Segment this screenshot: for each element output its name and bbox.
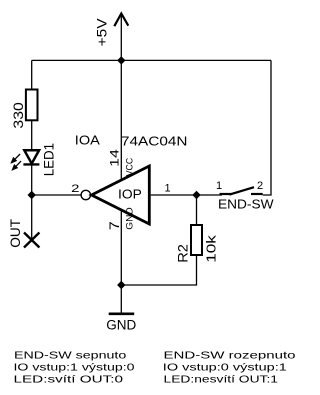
svg-text:IOP: IOP <box>118 186 142 201</box>
svg-text:GND: GND <box>124 207 134 230</box>
svg-text:R2: R2 <box>174 244 190 263</box>
svg-text:IO vstup:1 výstup:0: IO vstup:1 výstup:0 <box>14 362 135 374</box>
svg-text:LED:nesvítí OUT:1: LED:nesvítí OUT:1 <box>164 373 279 385</box>
svg-text:END-SW sepnuto: END-SW sepnuto <box>14 350 126 362</box>
svg-text:1: 1 <box>165 183 171 195</box>
svg-text:+5V: +5V <box>93 18 109 47</box>
svg-text:IO vstup:0 výstup:1: IO vstup:0 výstup:1 <box>163 362 287 374</box>
svg-text:330: 330 <box>10 102 26 129</box>
svg-text:1: 1 <box>216 180 222 192</box>
svg-text:74AC04N: 74AC04N <box>121 133 188 148</box>
svg-text:OUT: OUT <box>8 219 23 248</box>
svg-text:END-SW: END-SW <box>218 196 274 211</box>
svg-text:IOA: IOA <box>75 132 100 147</box>
svg-text:LED:svítí OUT:0: LED:svítí OUT:0 <box>14 373 124 385</box>
svg-text:LED1: LED1 <box>42 143 57 176</box>
svg-text:14: 14 <box>108 149 122 167</box>
svg-text:2: 2 <box>257 180 263 192</box>
svg-text:2: 2 <box>71 183 79 195</box>
svg-text:END-SW rozepnuto: END-SW rozepnuto <box>164 350 296 362</box>
svg-text:VCC: VCC <box>124 157 134 176</box>
svg-text:GND: GND <box>106 318 136 333</box>
svg-text:7: 7 <box>106 221 122 230</box>
svg-text:10k: 10k <box>203 235 218 263</box>
